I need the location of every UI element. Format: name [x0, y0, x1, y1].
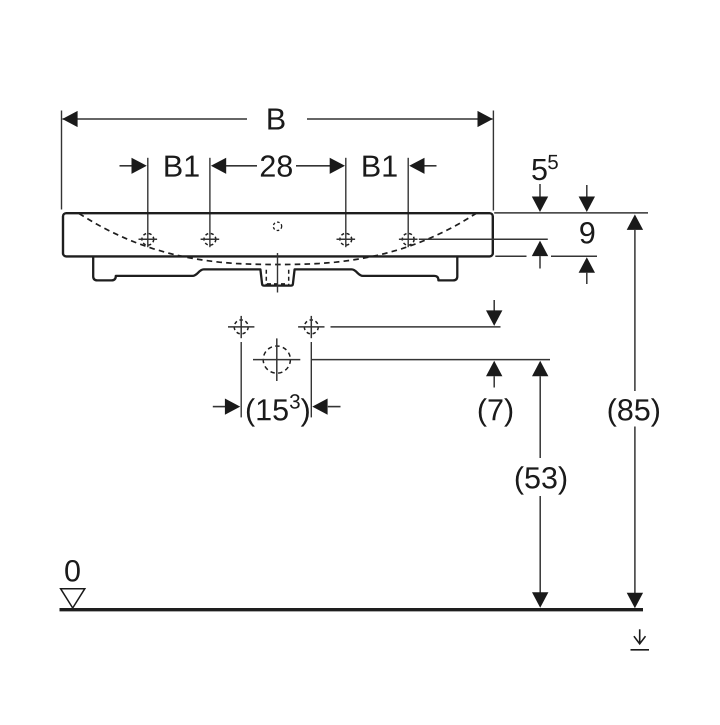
- ground line: [60, 608, 644, 611]
- dimension 28 right arrow: [296, 165, 330, 167]
- label B1 left: [165, 156, 198, 177]
- fixing hole: [298, 316, 324, 338]
- label 28: [261, 155, 292, 177]
- label 9: [580, 222, 594, 244]
- dimension (15^3) right arrow: [312, 399, 327, 415]
- basin top edge extension line: [494, 212, 648, 214]
- dimension B arrow right: [478, 111, 493, 127]
- overflow hole: [273, 222, 281, 230]
- dimension (15^3) left arrow: [213, 406, 226, 408]
- label B1 right: [363, 156, 396, 177]
- washbasin body outline: [63, 213, 493, 256]
- siphon circle: [263, 346, 290, 373]
- tap hole extension line: [345, 158, 347, 247]
- label 5^5: [532, 159, 546, 180]
- drain centerline: [277, 253, 279, 293]
- dimension (53) line: [532, 361, 548, 377]
- dimension 5^5 top arrow: [539, 184, 541, 199]
- dimension (7) top arrow: [493, 300, 495, 312]
- outlet symbol arrow: [631, 629, 650, 650]
- siphon crosshair: [253, 338, 300, 381]
- washbasin underside profile: [93, 256, 457, 286]
- fixing holes level line: [331, 326, 501, 328]
- dimension 9 top arrow: [586, 185, 588, 199]
- dimension 28 left arrow: [211, 158, 226, 174]
- fixing hole extension line down: [310, 342, 312, 417]
- label (15^3): [247, 398, 288, 426]
- fixing hole extension line down: [240, 342, 242, 417]
- label B: [268, 109, 284, 130]
- drain box dashed inner: [266, 270, 288, 285]
- label (53): [516, 466, 566, 494]
- label 0: [65, 560, 80, 582]
- dimension B extension line right: [492, 111, 494, 211]
- dimension (85) line: [627, 214, 643, 230]
- dimension B extension line left: [61, 111, 63, 210]
- dimension 9 bottom arrow: [579, 257, 595, 273]
- label (85): [609, 398, 659, 426]
- tap hole: [337, 233, 356, 245]
- dimension 5^5 bottom arrow: [532, 241, 548, 257]
- dimension (7) bottom arrow: [486, 361, 502, 377]
- datum triangle: [61, 589, 85, 608]
- tap hole extension line: [407, 158, 409, 247]
- fixing hole: [228, 316, 254, 338]
- dimension B1 left outside arrow: [120, 165, 134, 167]
- tap hole extension line: [209, 158, 211, 247]
- basin interior dashed curve: [79, 214, 476, 265]
- siphon level line: [311, 359, 550, 361]
- basin bottom edge extension line: [495, 255, 597, 257]
- tap hole: [201, 233, 220, 245]
- tap hole extension line: [147, 158, 149, 247]
- tap hole: [139, 233, 158, 245]
- tap hole: [399, 233, 418, 245]
- dimension B line: [63, 118, 493, 120]
- dimension B1 right outside arrow: [409, 158, 424, 174]
- tap hole level extension line: [419, 238, 548, 240]
- label (7): [479, 398, 512, 426]
- dimension B arrow left: [62, 111, 77, 127]
